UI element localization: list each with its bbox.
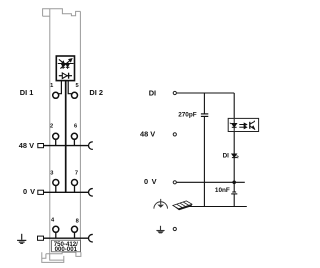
svg-text:5: 5 [76, 83, 79, 89]
svg-text:3: 3 [50, 171, 53, 177]
svg-text:1: 1 [50, 83, 53, 89]
svg-text:0 V: 0 V [23, 187, 35, 196]
svg-text:DI 1: DI 1 [20, 88, 34, 97]
svg-text:6: 6 [74, 123, 77, 129]
svg-text:DI 2: DI 2 [89, 88, 103, 97]
svg-text:DI: DI [149, 88, 156, 97]
svg-text:000-001: 000-001 [55, 246, 78, 253]
svg-text:DI: DI [223, 153, 230, 160]
svg-text:10nF: 10nF [215, 187, 230, 194]
svg-text:2: 2 [50, 124, 53, 130]
svg-text:0 V: 0 V [144, 177, 157, 186]
svg-text:8: 8 [76, 218, 79, 224]
svg-text:48 V: 48 V [140, 129, 155, 138]
svg-text:270pF: 270pF [178, 111, 197, 118]
svg-text:48 V: 48 V [19, 141, 34, 150]
svg-text:7: 7 [75, 170, 78, 176]
